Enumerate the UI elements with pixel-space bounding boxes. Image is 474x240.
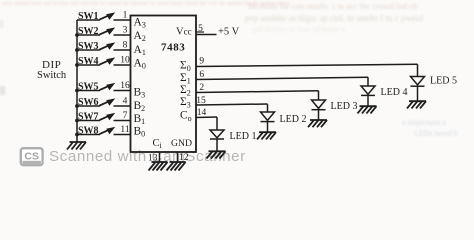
svg-text:9: 9	[199, 57, 204, 67]
wire pin 3	[114, 26, 131, 36]
wire pin 1	[114, 11, 131, 21]
switch SW3	[75, 41, 115, 52]
switch SW1	[77, 11, 115, 22]
svg-text:3: 3	[123, 26, 128, 36]
svg-text:a Implcnunt a: a Implcnunt a	[402, 118, 446, 127]
wire pin 7	[114, 111, 131, 121]
ground (LED 5)	[407, 101, 426, 108]
svg-text:8: 8	[123, 41, 128, 51]
svg-text:7: 7	[123, 111, 128, 121]
svg-text:GND: GND	[171, 138, 192, 149]
svg-text:prd dosline tc lnse sd bseta w: prd dosline tc lnse sd bseta w	[252, 25, 346, 34]
svg-text:Mcthods lor cats stusfic 1 tu: Mcthods lor cats stusfic 1 tu acc Ihc cr…	[248, 1, 418, 11]
label DIP Switch	[37, 59, 67, 81]
svg-text:LED 3: LED 3	[331, 101, 358, 112]
svg-text:LED 1: LED 1	[230, 131, 257, 142]
svg-text:LEDs bewd b: LEDs bewd b	[414, 129, 458, 138]
ground (pin 13)	[149, 162, 168, 171]
LED 1 diode	[210, 130, 224, 151]
switch SW7	[75, 112, 115, 123]
svg-text:6: 6	[199, 70, 204, 80]
ground (pin 12)	[167, 162, 186, 171]
watermark CS badge	[21, 148, 43, 165]
svg-text:LED 2: LED 2	[280, 114, 307, 125]
ground (LED 3)	[308, 120, 327, 127]
ground (LED 4)	[358, 106, 377, 113]
svg-text:LED 4: LED 4	[381, 87, 408, 98]
svg-text:Switch: Switch	[37, 70, 67, 81]
paper background	[0, 0, 474, 185]
svg-text:unm sdentd ba'ts unt ticrnm la: unm sdentd ba'ts unt ticrnm lath otsoude…	[2, 1, 289, 7]
faint bleed-through text top right	[245, 1, 423, 34]
switch SW8	[75, 126, 115, 137]
svg-text:4: 4	[123, 97, 128, 107]
svg-text:CS: CS	[24, 151, 39, 163]
svg-text:7483: 7483	[161, 42, 185, 54]
switch SW5	[75, 82, 115, 93]
faint left edge smudge	[0, 20, 5, 95]
svg-text:Vcc: Vcc	[176, 27, 192, 38]
svg-text:11: 11	[120, 125, 129, 135]
svg-text:2: 2	[199, 83, 204, 93]
svg-text:+5 V: +5 V	[218, 27, 240, 38]
wire GND pin 12	[177, 152, 179, 162]
wire pin 10	[114, 56, 131, 66]
svg-text:16: 16	[120, 81, 130, 91]
svg-text:10: 10	[120, 56, 130, 66]
switch SW4	[75, 56, 115, 67]
faint bleed-through text bottom right	[402, 118, 458, 138]
IC U1 7483 body	[131, 16, 197, 153]
svg-text:14: 14	[197, 108, 207, 118]
ground (LED 1)	[207, 151, 226, 158]
wire sum0 to LED5	[196, 64, 418, 66]
wire pin 4	[114, 97, 131, 107]
LED 3 diode	[312, 100, 326, 119]
wire sum2 to LED3	[196, 91, 319, 93]
wire sum1 to LED4	[196, 77, 368, 79]
wire pin 11	[114, 125, 131, 135]
svg-text:LED 5: LED 5	[430, 76, 457, 87]
wire carry-out to LED1	[196, 116, 217, 119]
switch SW6	[75, 97, 115, 108]
wire sum3 to LED2	[196, 104, 268, 105]
switch SW2	[75, 26, 115, 37]
bus wire (left vertical)	[76, 20, 78, 142]
wire Ci pin 13	[159, 152, 161, 162]
LED 5 diode	[411, 77, 425, 101]
ground (LED 2)	[257, 132, 276, 139]
ground (bus bottom)	[67, 142, 86, 150]
wire Vcc pin 5	[196, 31, 205, 33]
wire pin 16	[114, 81, 131, 91]
LED 2 diode	[261, 112, 275, 132]
svg-text:1: 1	[123, 11, 128, 21]
wire pin 8	[114, 41, 131, 51]
LED 4 diode	[361, 86, 375, 106]
faint top-edge cropped text artifact	[2, 1, 289, 7]
svg-text:pvp andshu as tligrc ap ctsl.: pvp andshu as tligrc ap ctsl. tn sntdte …	[245, 13, 423, 23]
